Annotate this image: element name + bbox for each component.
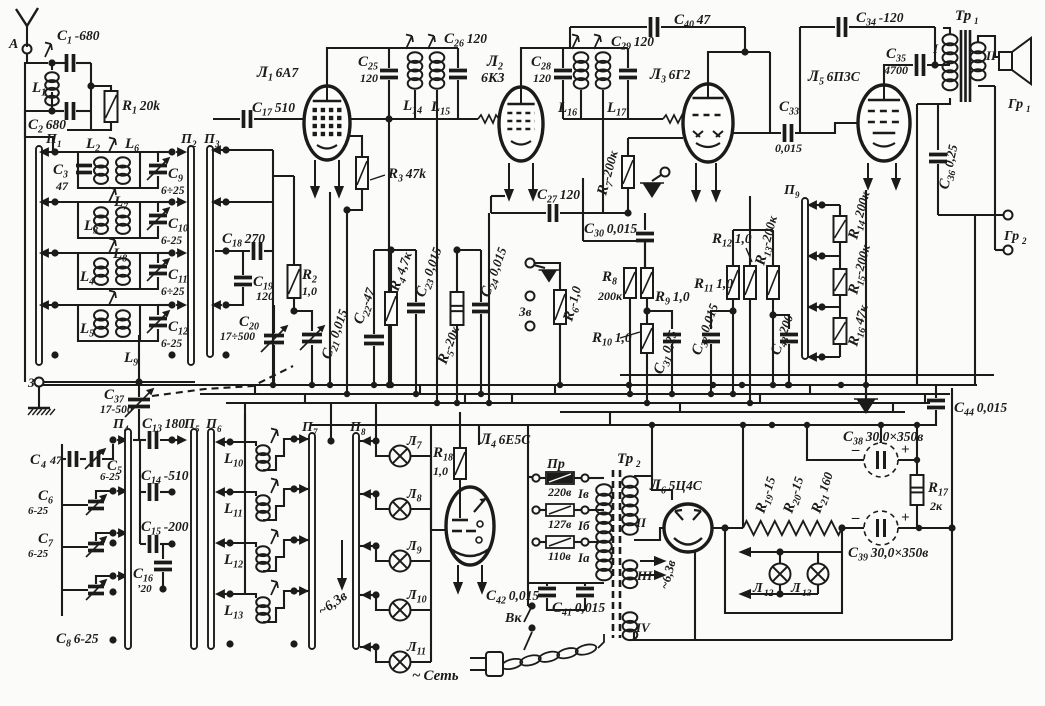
bus junction [863,382,869,388]
bus junction [626,382,632,388]
transformer Tr1 winding I [943,34,958,90]
switch P6 bar [208,429,214,649]
wire IV bottom [633,632,635,640]
switch P1 bar [36,146,42,365]
heater arrow lamps top [741,548,842,555]
contact P7 L10 [298,436,307,443]
wire R4 top [390,250,392,292]
node L12 right [290,536,297,543]
resistor R12 [744,266,756,299]
node P7 bottom [290,640,297,647]
wire C44 bottom [917,410,936,425]
svg-text:4700: 4700 [883,63,908,77]
wire trimmer rail [61,444,63,616]
capacitor С9 [149,166,167,173]
wire C18 left [215,250,250,252]
wire to C43 [773,315,789,329]
adjust core L5/L9 [109,291,116,306]
cathode arrow L1 a [311,160,318,196]
contact P9 4 [809,354,818,361]
fuse link 127в [546,504,574,516]
wire R3 bottom [347,189,362,210]
svg-text:17÷500: 17÷500 [220,331,255,343]
capacitor C35 [917,54,924,76]
wire C30 line [583,240,645,242]
svg-text:6÷25: 6÷25 [161,286,185,298]
bus line 2 [43,384,977,386]
capacitor C24 [472,305,490,312]
resistor R14 [834,216,847,242]
contact P3 y305 [213,302,222,309]
inductor L7 winding [116,207,130,234]
capacitor C3 [76,166,92,173]
wire drop to R18 [459,412,461,448]
wire R2 to C21 [294,298,312,331]
transformer Tr2 winding IV [623,612,638,640]
wire to lamp L7 [376,441,389,456]
wire lamp L11 out [411,661,431,663]
adjust L11 [271,479,278,494]
bus junction [644,400,650,406]
svg-text:120: 120 [360,71,378,85]
wire earth bus left [43,381,195,383]
wire R11 bottom [732,299,734,394]
cathode arrow L1 b [335,160,342,196]
wire R12 top [749,230,751,266]
wire R6 bottom [559,324,561,385]
bus junction [730,391,736,397]
wire C40 right [661,26,745,28]
wire L2 cathode drop [488,213,490,403]
wire C40 left drop [569,27,571,48]
svg-text:+: + [901,510,910,526]
wire Gr2 bottom [995,249,1003,251]
wire C27 node to R7 [583,212,628,214]
bus line 5 [560,411,905,413]
switch P2 bar [188,146,194,365]
wire L13 top [817,552,819,563]
wire C6 to P4 [96,491,113,499]
wire C8 left [62,589,88,591]
svg-text:Вк: Вк [504,611,522,626]
contact P7 L13 [298,588,307,595]
node box left [721,524,728,531]
transformer Tr2 winding III [623,560,638,588]
wire R5 bottom [456,325,458,403]
bus junction [386,382,392,388]
svg-text:127в: 127в [548,517,572,531]
terminal tap 220в right [581,474,588,481]
cathode arrow L3 a [692,163,699,200]
wire P8 contact lamp 11 [360,646,376,648]
wire to lamp L10 [376,595,389,610]
wire to P7 row 13 [294,590,308,592]
capacitor C21 padder [302,335,322,342]
node box right [838,524,845,531]
svg-text:Тр: Тр [955,8,972,24]
adjust arrow near C1 [45,43,52,58]
wire P9 contact 2 [812,255,840,257]
wire L17 drop [602,119,604,213]
ground triangle pickup [539,270,560,282]
contact P9 2 [809,253,818,260]
wire left edge down [24,111,26,382]
wire C16 bottom [162,572,164,588]
wire C40 left [570,26,647,28]
wire to P7 row 11 [294,488,308,490]
node C38 top [878,422,884,428]
resistor R6 [554,290,566,324]
wire C37 bottom lead [138,409,140,440]
node L12 bottom [776,590,783,597]
capacitor C23 [407,305,425,312]
svg-text:4: 4 [40,460,46,471]
adjust L14 [406,35,413,50]
node R11/C32 [729,307,736,314]
wire P6 row 12 [217,542,245,544]
cathode arrow L3 b [712,163,719,200]
wire lamp L10 out [411,609,431,611]
node P4 contact 4 [109,572,116,579]
contact P3 y202 [213,199,222,206]
wire R7 top [627,138,629,156]
lamp L13 [808,564,829,585]
wire vertical C1-C2 right side [90,63,92,130]
tube L5 6P3S [858,85,910,161]
node L11 left [226,488,233,495]
wire to lamp L9 [376,546,389,561]
node P4 contact 3 [109,529,116,536]
switch P3 bar [207,146,213,357]
contact P7 L12 [298,537,307,544]
transformer Tr2 core [613,470,620,638]
wire C30 top [644,225,646,230]
wire II bottom [978,85,995,87]
bus junction [486,400,492,406]
node R9/C31 [643,307,650,314]
contact P7 L11 [298,486,307,493]
contact P8 lamp 7 [363,438,372,445]
wire L12 out [263,540,294,571]
wire R14-R15 [839,242,841,269]
capacitor C4 [70,451,77,467]
wire to C39 [842,527,864,529]
node bus drop [649,422,655,428]
node P1 contact row 3 [51,249,58,256]
contact P9 1 [809,202,818,209]
wire C27 left [491,212,546,214]
wire R13 top [772,230,774,266]
wire L13 out [263,591,294,622]
contact P2 row 3 [176,250,185,257]
inductor L11 [256,495,270,520]
wire pickup to ground [534,265,545,268]
wire lamp rail [430,456,432,662]
leader R12 [746,248,752,262]
wire L12 bottom [779,585,781,594]
terminal earth [35,378,44,387]
wire C25 bottom drop [388,80,390,385]
wire A to C1/L1 node [27,53,48,63]
wire C35 right [927,64,950,66]
wire fuse rail down [527,477,529,606]
switch Vk blade [524,606,532,622]
wire zigzag feed [742,425,744,527]
wire bus drop to rectifier [651,425,653,476]
resistor R8 [624,268,636,298]
svg-text:–: – [851,510,860,526]
contact P4 row 4 [117,573,126,580]
bus junction [669,391,675,397]
wire C33 to L5 grid [795,123,858,133]
wire Gr2 top drop to bus [974,215,976,385]
contact P1 row 3 [41,250,50,257]
wire to C32 [711,311,733,329]
node P2 contact row 4 [168,301,175,308]
node L11 right [290,485,297,492]
switch P8 bar [353,433,359,649]
bus junction [371,382,377,388]
wire Tr1 I drop to bus [916,104,918,385]
node P7 top contact [327,437,334,444]
capacitor C13 [150,431,157,449]
wire R12 bottom [749,299,751,403]
node P3 contact 1 [222,146,229,153]
wire P6 row 13 [217,593,245,595]
wire C19 top [242,251,244,275]
resistor R3 [356,157,368,189]
bus line 3 [200,393,950,395]
wire P6 row 10 [217,441,245,443]
contact P1 row 4 [41,302,50,309]
node P3 bottom [222,351,229,358]
terminal pickup 2 [526,292,535,301]
node P9 contact 2 [818,252,825,259]
node C37 top [135,378,142,385]
wire C7 left [62,546,88,548]
node P8 lamp 11 [372,643,379,650]
terminal tap 110в right [581,538,588,545]
contact P6 L11 [217,489,226,496]
node P9 contact 4 [818,353,825,360]
wire C34 right [849,26,935,28]
adjust core L4/L8 [109,239,116,254]
node L13 left [226,590,233,597]
wire C23 bottom [415,314,417,394]
speaker Gr1 [999,38,1031,84]
bus junction [454,400,460,406]
contact P8 lamp 11 [363,644,372,651]
bus junction [434,400,440,406]
bus junction [914,422,920,428]
wire lamp L9 out [411,560,431,562]
wire C24 top [480,250,482,302]
wire P8 contact lamp 7 [360,440,376,442]
node antenna junction [48,59,55,66]
wire L15 bottom [436,90,438,119]
wire P8 contact lamp 10 [360,594,376,596]
wire R8 bottom [629,298,631,394]
transformer Tr1 core [961,30,970,102]
contact P6 L12 [217,540,226,547]
heater arrow lamps bottom [741,590,818,597]
contact P8 lamp 8 [363,491,372,498]
wire P8 contact lamp 9 [360,545,376,547]
transformer Tr1 winding II [971,42,986,80]
bus junction [327,382,333,388]
wire anode L2 to IF2 rail [521,48,563,87]
wire C column rail [139,440,141,544]
cathode arrow L2 b [529,163,536,199]
wire C13 right [160,439,183,441]
capacitor C17 [244,110,251,128]
inductor L4 winding [94,258,108,285]
wire L5 cathode drop [865,190,867,399]
wire to R6 [534,263,560,290]
wire lamp L7 out [411,455,431,457]
wire tap 220в [540,477,546,479]
capacitor C19 [234,278,252,285]
svg-text:8: 8 [361,427,366,437]
node L10 right [290,435,297,442]
wire C36 top [937,104,939,150]
wire L17 bottom [602,90,604,119]
switch P4 bar [125,429,131,649]
wire lamp L8 out [411,508,431,510]
wire grid line L3 [563,118,663,120]
wire drop to P7 [330,403,332,441]
wire P1 row 1 [44,151,78,153]
terminal Gr2 b [1004,246,1013,255]
capacitor C26 [449,71,467,78]
svg-text:220в: 220в [547,485,572,499]
bus junction [770,382,776,388]
cathode arrow L5 b [892,163,899,188]
adjust L13 [271,581,278,596]
adjust L10 [271,429,278,444]
wire to R3 [350,136,362,157]
wire P3 row2 [215,201,273,203]
wire bottom bus [630,639,952,641]
wire C20 bottom [273,345,275,385]
mains plug [470,652,503,676]
resistor R15 [834,269,847,295]
resistor R5 volume [451,292,464,325]
wire tap 127в [540,509,546,511]
terminal tap 110в [532,538,539,545]
inductor L2 winding [94,157,108,184]
wire R16 bottom [839,344,841,357]
capacitor С10 [149,216,167,223]
node P2 contact row 1 [168,148,175,155]
wire Tr1 I top [943,28,950,34]
wire C8 to P4 [96,576,113,584]
svg-text:Л: Л [790,581,801,596]
capacitor С11 [149,267,167,274]
wire to C27 line [490,196,492,213]
svg-text:2: 2 [1021,236,1027,246]
svg-text:Л: Л [752,581,763,596]
capacitor C32 [702,335,720,342]
svg-text:Iв: Iв [577,486,589,501]
wire to trimmer row 1 [140,152,158,162]
bus line 4 [226,402,930,404]
cathode arrow L2 a [505,163,512,199]
wire fuse rail [528,476,533,478]
svg-text:IV: IV [635,620,651,635]
node C38/R17 [914,457,920,463]
wire C41 bottom [584,598,586,610]
node C18 left [222,247,229,254]
wire screen feed [749,196,751,230]
wire anode L3 drop [769,52,771,133]
wire R10 bottom [646,353,648,403]
wire R13 bottom [772,299,774,315]
capacitor C18 [254,242,261,260]
svg-text:9: 9 [795,190,800,200]
capacitor C1 [67,54,74,72]
bus junction [309,382,315,388]
wire drop to fuse rail [527,425,529,477]
wire C23 top [415,250,417,302]
capacitor C15 [150,535,157,553]
svg-text:1,0: 1,0 [302,284,317,298]
wire primary bottom rail [528,582,604,584]
inductor L14 [408,52,423,88]
wire C14 right [160,491,172,493]
contact P3 y150 [213,147,222,154]
svg-text:Iб: Iб [577,518,590,533]
bus line 6 [310,424,936,426]
node P8 lamp 7 [372,437,379,444]
wire R15-R16 [839,295,841,318]
tube L6 5Ts4S rectifier [664,504,712,552]
tube L1 6A7 [304,86,350,160]
svg-text:13: 13 [802,589,812,599]
node R5 top [453,246,460,253]
node P1 contact row 4 [51,301,58,308]
node P9 contact 3 [818,303,825,310]
node P3 contact 2 [222,198,229,205]
wire to lamp L8 [376,494,389,509]
contact P6 L10 [217,439,226,446]
wire left drop [24,62,26,111]
svg-text:47: 47 [49,453,63,467]
node P8 lamp 9 [372,542,379,549]
wire II to anode a [634,476,672,500]
node L12 top [776,548,783,555]
ground triangle main [854,399,878,413]
node P1 contact row 1 [51,148,58,155]
capacitor C42 [538,589,556,596]
wire tap 127в to primary [589,509,604,511]
wire R5/C24 link [457,249,481,251]
wire tap 110в [540,541,546,543]
lamp L9 [390,551,411,572]
bus junction [270,382,276,388]
node L rail bottom [226,640,233,647]
wire tank loop row 3 [78,253,140,289]
wire tap 220в to primary [589,477,604,479]
bus junction [786,382,792,388]
wire C19 bottom [226,287,243,305]
bus line 1 [620,374,994,376]
bus junction [627,391,633,397]
wire L2 cathode link [491,195,505,197]
node R2 bottom [290,307,297,314]
wire C15 right [160,543,172,545]
mains cord twisted [501,643,598,671]
